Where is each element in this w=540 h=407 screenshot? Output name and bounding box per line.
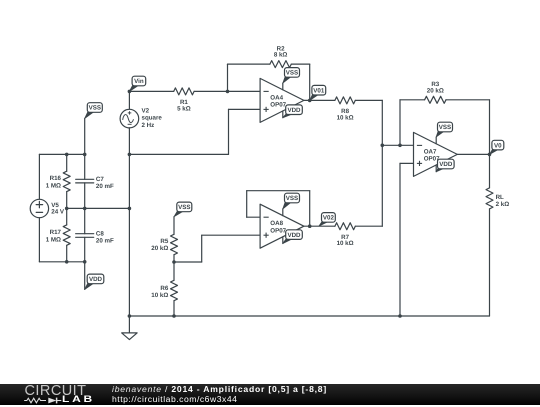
net flag VSS (OA4) bbox=[283, 68, 300, 84]
net flag VSS (supply top) bbox=[85, 103, 103, 119]
net flag V02 bbox=[319, 213, 336, 227]
junction OA4 output node V01 bbox=[308, 99, 312, 103]
svg-text:10 kΩ: 10 kΩ bbox=[337, 240, 354, 247]
junction top rail / R16 bbox=[65, 153, 69, 157]
junction output node V0 bbox=[488, 153, 492, 157]
svg-text:2 Hz: 2 Hz bbox=[142, 122, 155, 129]
wire ground rail to OA4 plus bbox=[129, 109, 260, 154]
junction R6 / ground rail bbox=[172, 314, 176, 318]
svg-text:VSS: VSS bbox=[286, 195, 298, 202]
svg-text:R16: R16 bbox=[50, 175, 62, 182]
svg-text:VSS: VSS bbox=[439, 124, 451, 131]
wire top-left rail bbox=[39, 153, 84, 155]
wire OA4 output bbox=[304, 99, 310, 101]
footer bar bbox=[0, 384, 540, 405]
net flag VDD (OA8) bbox=[283, 230, 303, 244]
wire OA8 output bbox=[304, 225, 335, 227]
svg-text:1 MΩ: 1 MΩ bbox=[46, 182, 61, 189]
svg-text:VDD: VDD bbox=[287, 107, 301, 114]
resistor R5 bbox=[171, 217, 178, 262]
junction OA7- / R3 bbox=[398, 144, 402, 148]
junction mid rail / C7-C8 bbox=[83, 207, 87, 211]
svg-text:VDD: VDD bbox=[287, 232, 301, 239]
svg-text:OA7: OA7 bbox=[424, 148, 437, 155]
svg-text:R5: R5 bbox=[160, 238, 168, 245]
svg-text:V02: V02 bbox=[323, 215, 335, 222]
resistor R6 bbox=[171, 262, 178, 316]
svg-text:10 kΩ: 10 kΩ bbox=[151, 292, 168, 299]
wire OA8 feedback loop bbox=[247, 191, 310, 227]
net flag V01 bbox=[310, 85, 326, 100]
op-amp OA4 OP07 bbox=[260, 78, 304, 122]
wire mid to ground rail bbox=[128, 208, 130, 316]
svg-text:8 kΩ: 8 kΩ bbox=[274, 51, 288, 58]
svg-text:VDD: VDD bbox=[439, 161, 453, 168]
svg-text:20 kΩ: 20 kΩ bbox=[427, 87, 444, 94]
resistor R17 bbox=[63, 208, 70, 261]
svg-text:1 MΩ: 1 MΩ bbox=[46, 236, 61, 243]
resistor R7 bbox=[335, 223, 355, 230]
wire summing node to OA7 minus bbox=[382, 144, 413, 146]
junction summing node bbox=[381, 144, 385, 148]
voltage source V5 24V bbox=[30, 154, 48, 261]
svg-text:20 mF: 20 mF bbox=[96, 183, 114, 190]
svg-text:VSS: VSS bbox=[178, 204, 190, 211]
wire summing column bbox=[381, 100, 383, 226]
net flag VSS (R5 top) bbox=[174, 202, 192, 217]
net flag VDD (supply bottom) bbox=[85, 274, 104, 289]
CircuitLab logo text CIRCUIT bbox=[25, 383, 105, 399]
junction bottom rail / C8+VDD bbox=[83, 260, 87, 264]
svg-text:V0: V0 bbox=[494, 142, 502, 149]
footer line 1 bbox=[112, 384, 327, 394]
svg-text:R17: R17 bbox=[50, 229, 62, 236]
resistor R1 bbox=[129, 88, 227, 95]
net flag Vin bbox=[129, 76, 145, 91]
logo resistor zigzag bbox=[24, 398, 46, 403]
net flag VSS (OA7) bbox=[436, 122, 452, 137]
svg-text:OA8: OA8 bbox=[270, 220, 283, 227]
svg-text:20 kΩ: 20 kΩ bbox=[151, 245, 168, 252]
svg-text:10 kΩ: 10 kΩ bbox=[337, 115, 354, 122]
svg-text:V01: V01 bbox=[313, 87, 325, 94]
voltage source V2 square 2Hz bbox=[120, 91, 139, 154]
svg-text:V2: V2 bbox=[142, 107, 150, 114]
junction R5/R6 divider bbox=[172, 260, 176, 264]
junction V2 bottom / rail to opamp bbox=[128, 153, 132, 157]
svg-text:OP07: OP07 bbox=[270, 228, 286, 235]
svg-text:VDD: VDD bbox=[89, 276, 103, 283]
svg-text:OA4: OA4 bbox=[270, 94, 283, 101]
svg-text:Vin: Vin bbox=[134, 78, 144, 85]
junction mid rail / R16-R17 bbox=[65, 207, 69, 211]
net flag VSS (OA8) bbox=[283, 193, 300, 209]
net flag VDD (OA4) bbox=[283, 105, 303, 118]
wire ground rail bbox=[129, 315, 489, 317]
resistor R8 bbox=[310, 97, 383, 104]
wire V2 to ground column bbox=[128, 154, 130, 208]
junction OA7+ riser / ground rail bbox=[398, 314, 402, 318]
resistor R16 bbox=[63, 154, 70, 208]
op-amp OA8 OP07 bbox=[260, 204, 304, 248]
svg-text:5 kΩ: 5 kΩ bbox=[177, 105, 191, 112]
wire VSS stub bbox=[84, 118, 86, 154]
capacitor C7 bbox=[76, 154, 94, 208]
svg-text:VSS: VSS bbox=[286, 70, 298, 77]
resistor R3 feedback bbox=[400, 96, 490, 154]
junction bottom rail / R17 bbox=[65, 260, 69, 264]
capacitor C8 bbox=[76, 208, 94, 261]
net flag V0 bbox=[490, 140, 504, 154]
footer line 2 bbox=[112, 394, 237, 404]
ground symbol bbox=[122, 316, 137, 340]
wire OA7 plus to ground rail bbox=[400, 163, 414, 316]
wire R1 junction to OA4 minus bbox=[228, 90, 261, 92]
svg-text:OP07: OP07 bbox=[270, 102, 286, 109]
svg-text:2 kΩ: 2 kΩ bbox=[496, 201, 510, 208]
wire mid-left rail bbox=[67, 207, 130, 209]
op-amp OA7 OP07 bbox=[414, 132, 458, 176]
CircuitLab logo LAB bbox=[62, 394, 95, 405]
wire OA7 output bbox=[457, 153, 489, 155]
svg-text:24 V: 24 V bbox=[51, 209, 65, 216]
junction ground column / mid rail bbox=[128, 207, 132, 211]
junction Vin node bbox=[128, 90, 132, 94]
svg-text:R6: R6 bbox=[160, 285, 168, 292]
svg-text:RL: RL bbox=[496, 194, 504, 201]
wire VDD stub bbox=[84, 262, 86, 290]
resistor R2 feedback bbox=[228, 61, 310, 101]
resistor RL bbox=[486, 154, 493, 316]
logo diode bbox=[48, 397, 56, 403]
svg-text:VSS: VSS bbox=[89, 105, 101, 112]
junction R1 / R2 / OA4- bbox=[226, 90, 230, 94]
svg-text:square: square bbox=[142, 115, 163, 122]
junction top rail / C7+VSS bbox=[83, 153, 87, 157]
junction OA8 output node V02 bbox=[308, 224, 312, 228]
svg-text:20 mF: 20 mF bbox=[96, 237, 114, 244]
wire divider to OA8 plus bbox=[174, 235, 260, 262]
CircuitLab logo zigzag+diode bbox=[23, 395, 68, 407]
svg-text:C7: C7 bbox=[96, 176, 104, 183]
net flag VDD (OA7) bbox=[436, 159, 454, 172]
junction ground rail / ground bbox=[128, 314, 132, 318]
wire bottom-left rail bbox=[39, 261, 84, 263]
